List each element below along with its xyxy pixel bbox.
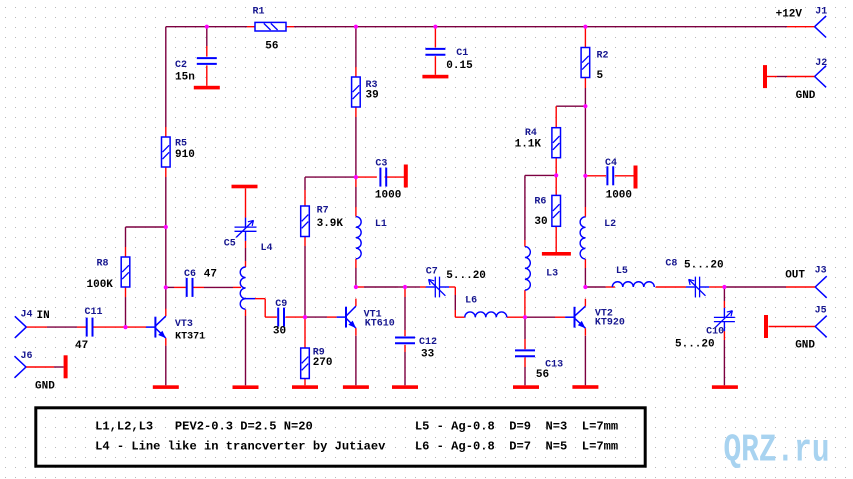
- svg-text:R5: R5: [175, 138, 187, 149]
- svg-text:47: 47: [204, 269, 217, 281]
- svg-text:L6: L6: [465, 296, 477, 307]
- svg-text:KT920: KT920: [595, 318, 625, 329]
- svg-text:+12V: +12V: [776, 9, 803, 21]
- svg-text:QRZ.ru: QRZ.ru: [724, 429, 830, 473]
- svg-text:L5 - Ag-0.8 D=9 N=3 L=7mm: L5 - Ag-0.8 D=9 N=3 L=7mm: [415, 420, 618, 434]
- svg-text:C3: C3: [375, 158, 387, 169]
- svg-text:15n: 15n: [175, 72, 195, 84]
- svg-text:R4: R4: [525, 128, 537, 139]
- svg-text:C2: C2: [175, 60, 187, 71]
- svg-text:C10: C10: [706, 326, 724, 337]
- svg-text:GND: GND: [35, 380, 55, 392]
- svg-text:L4: L4: [261, 243, 273, 254]
- svg-text:C4: C4: [605, 158, 617, 169]
- svg-text:OUT: OUT: [785, 269, 805, 281]
- svg-text:1000: 1000: [375, 189, 401, 201]
- svg-text:KT371: KT371: [175, 332, 205, 343]
- svg-text:C9: C9: [275, 299, 287, 310]
- svg-text:30: 30: [534, 216, 547, 228]
- svg-text:L1,L2,L3 PEV2-0.3 D=2.5 N=20: L1,L2,L3 PEV2-0.3 D=2.5 N=20: [95, 420, 313, 434]
- svg-text:C11: C11: [85, 307, 103, 318]
- svg-text:L4 - Line like in trancverter: L4 - Line like in trancverter by Jutiaev: [95, 439, 386, 453]
- svg-text:R8: R8: [97, 258, 109, 269]
- svg-text:J2: J2: [815, 58, 827, 69]
- svg-text:56: 56: [265, 40, 278, 52]
- svg-text:VT3: VT3: [175, 319, 193, 330]
- svg-text:C12: C12: [419, 337, 437, 348]
- svg-text:R6: R6: [534, 197, 546, 208]
- svg-text:910: 910: [175, 149, 195, 161]
- svg-text:0.15: 0.15: [446, 60, 473, 72]
- svg-text:GND: GND: [796, 90, 816, 102]
- svg-text:56: 56: [536, 369, 549, 381]
- svg-text:C6: C6: [184, 269, 196, 280]
- svg-text:J4: J4: [21, 309, 33, 320]
- svg-text:100K: 100K: [87, 279, 114, 291]
- svg-text:J5: J5: [815, 305, 827, 316]
- svg-text:C8: C8: [665, 259, 677, 270]
- svg-text:1000: 1000: [606, 189, 632, 201]
- svg-text:R7: R7: [317, 206, 329, 217]
- svg-text:L5: L5: [616, 266, 628, 277]
- svg-text:5...20: 5...20: [446, 270, 486, 282]
- svg-text:5...20: 5...20: [684, 260, 724, 272]
- svg-text:J1: J1: [815, 7, 827, 18]
- svg-text:IN: IN: [37, 310, 50, 322]
- svg-text:R1: R1: [253, 7, 265, 18]
- svg-text:L3: L3: [546, 269, 558, 280]
- svg-text:270: 270: [313, 357, 333, 369]
- svg-text:R2: R2: [597, 50, 609, 61]
- svg-text:1.1K: 1.1K: [515, 139, 542, 151]
- svg-text:L2: L2: [604, 219, 616, 230]
- svg-text:3.9K: 3.9K: [317, 218, 344, 230]
- svg-text:J3: J3: [815, 265, 827, 276]
- svg-text:C5: C5: [224, 238, 236, 249]
- svg-text:39: 39: [366, 89, 379, 101]
- svg-text:47: 47: [75, 340, 88, 352]
- svg-text:C7: C7: [426, 266, 438, 277]
- svg-text:30: 30: [273, 325, 286, 337]
- svg-text:L6 - Ag-0.8 D=7 N=5 L=7mm: L6 - Ag-0.8 D=7 N=5 L=7mm: [415, 439, 618, 453]
- svg-text:J6: J6: [21, 351, 33, 362]
- svg-text:L1: L1: [375, 219, 387, 230]
- svg-text:C1: C1: [456, 48, 468, 59]
- svg-text:5: 5: [597, 70, 604, 82]
- svg-text:33: 33: [421, 349, 435, 361]
- svg-text:KT610: KT610: [365, 318, 395, 329]
- svg-text:GND: GND: [795, 339, 815, 351]
- svg-text:5...20: 5...20: [675, 339, 715, 351]
